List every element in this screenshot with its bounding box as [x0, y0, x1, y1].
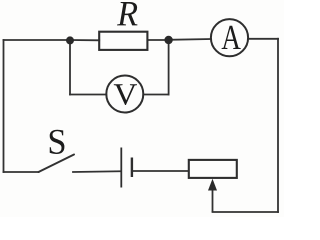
wire right vertical	[277, 39, 279, 212]
wire voltmeter branch right vertical	[168, 40, 170, 95]
ammeter A1 circle	[211, 19, 248, 56]
battery BT1 short plate	[131, 158, 133, 178]
resistor R value label	[117, 2, 138, 25]
wire resistor to right node	[147, 39, 168, 41]
wire voltmeter branch left vertical	[69, 40, 71, 95]
wire top-left segment	[4, 39, 71, 41]
wire left node to resistor	[70, 39, 99, 41]
wire voltmeter branch left horizontal	[70, 94, 106, 96]
wire voltmeter branch right horizontal	[143, 94, 168, 96]
switch S blade	[39, 155, 75, 173]
voltmeter V1 circle	[106, 76, 143, 113]
rheostat R2 wiper arrowhead	[208, 179, 217, 191]
ammeter letter A	[222, 26, 241, 49]
wire bottom-left horizontal	[4, 171, 39, 173]
switch label S	[50, 130, 65, 154]
rheostat R2 body	[189, 160, 237, 178]
resistor R body	[99, 32, 147, 50]
voltmeter letter V	[114, 84, 137, 105]
wire battery to rheostat	[133, 170, 189, 172]
battery BT1 long plate	[120, 148, 122, 188]
node junction left	[66, 36, 74, 44]
wire right node to ammeter	[169, 38, 211, 41]
node junction right	[164, 36, 172, 44]
wire switch to battery	[73, 170, 121, 173]
rheostat R2 wiper stem	[212, 189, 214, 212]
wire bottom-right horizontal	[213, 211, 279, 213]
wire left vertical	[3, 40, 5, 172]
wire ammeter to top-right corner	[248, 38, 278, 40]
